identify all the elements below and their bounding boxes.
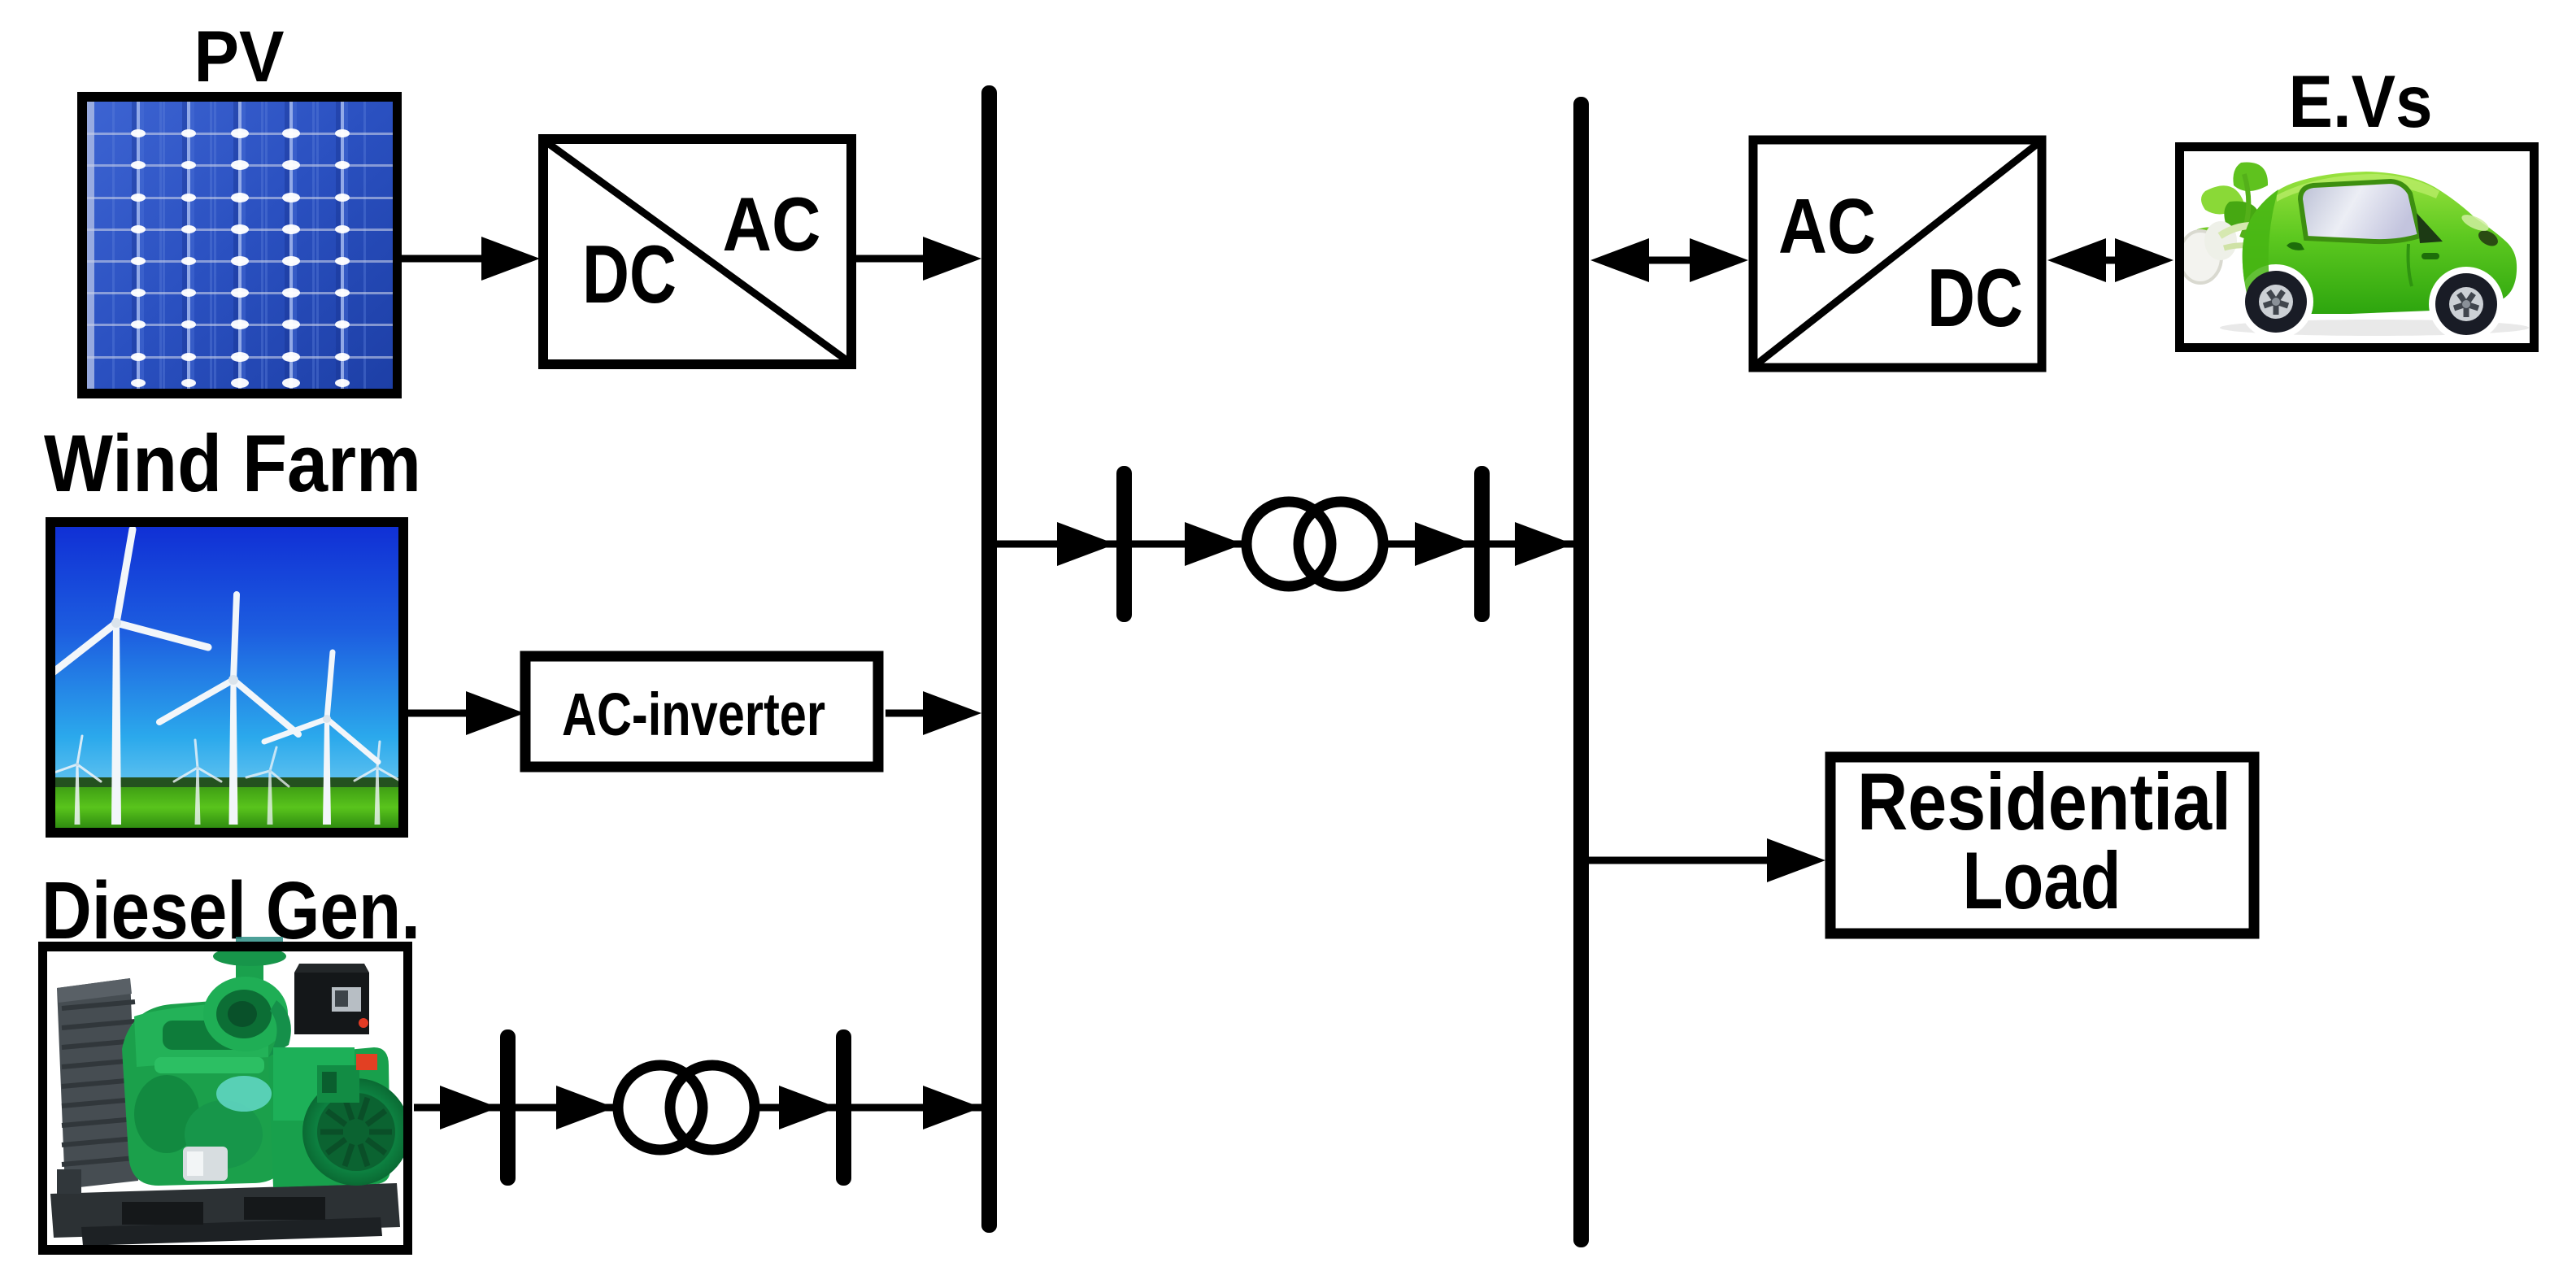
arrowhead link 1 (1057, 522, 1116, 566)
arrowhead diesel branch 1 (440, 1086, 498, 1129)
wire bus 2 to AC/DC converter (bidirectional) (1590, 238, 1748, 282)
converter AC/DC (EV charger) (1753, 140, 2042, 368)
svg-text:Residential: Residential (1857, 756, 2231, 847)
arrowhead link 3 (1415, 522, 1473, 566)
transformer T2 diesel (618, 1065, 755, 1150)
AC bus 1 (981, 85, 997, 1233)
converter DC/AC (PV inverter) (543, 139, 851, 364)
wire PV to converter (402, 237, 540, 281)
breaker bar link right (1474, 466, 1490, 622)
svg-text:E.Vs: E.Vs (2289, 61, 2433, 143)
svg-text:DC: DC (582, 229, 677, 320)
svg-text:Wind Farm: Wind Farm (44, 418, 421, 508)
svg-text:AC: AC (723, 181, 821, 267)
svg-text:DC: DC (1927, 253, 2023, 344)
breaker bar diesel left (500, 1029, 516, 1186)
wire wind farm to AC-inverter (408, 691, 524, 735)
wire diesel generator to AC bus 1 (414, 1104, 981, 1112)
svg-text:PV: PV (194, 15, 285, 97)
load Residential Load box (1830, 756, 2254, 934)
breaker bar diesel right (836, 1029, 851, 1186)
electric vehicle photo (2175, 142, 2539, 352)
arrowhead link 2 (1185, 522, 1243, 566)
wire converter to AC bus 1 (851, 237, 981, 281)
arrowhead diesel branch 2 (556, 1086, 615, 1129)
arrowhead diesel branch 3 (779, 1086, 838, 1129)
diesel generator photo (236, 937, 283, 943)
svg-text:Load: Load (1963, 835, 2121, 925)
wire AC/DC converter to EV (bidirectional) (2047, 238, 2173, 282)
svg-text:AC: AC (1778, 183, 1876, 270)
converter AC-inverter (wind) (525, 656, 878, 767)
breaker bar link left (1116, 466, 1132, 622)
wire AC-inverter to AC bus 1 (885, 691, 981, 735)
wire bus 2 to residential load (1589, 838, 1825, 882)
wind farm photo (41, 517, 408, 838)
arrowhead diesel branch 4 (923, 1086, 981, 1129)
svg-text:AC-inverter: AC-inverter (562, 681, 825, 748)
wire bus 1 to bus 2 (997, 541, 1573, 548)
transformer T1 interbus (1247, 502, 1383, 586)
arrowhead link 4 (1515, 522, 1573, 566)
PV solar panel photo (77, 92, 402, 398)
AC bus 2 (1573, 97, 1589, 1247)
